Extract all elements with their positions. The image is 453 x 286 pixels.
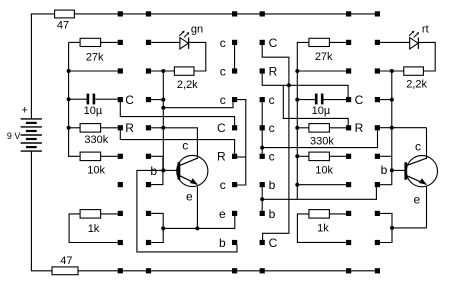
battery B1 9V	[21, 118, 42, 120]
node terminal col5 row5	[346, 125, 351, 130]
resistor R9 330k	[309, 124, 330, 133]
svg-text:rt: rt	[422, 24, 429, 36]
node terminal col5 row9	[346, 240, 351, 245]
wire branch A	[283, 85, 348, 125]
wire right row7 link	[380, 184, 392, 186]
svg-text:27k: 27k	[86, 52, 104, 64]
node terminal col1 row5	[118, 125, 123, 130]
wire right base	[392, 169, 405, 171]
wire right emitter	[426, 187, 428, 228]
node terminal col5 row10	[346, 268, 351, 273]
wire mid-right ccc	[261, 102, 263, 154]
svg-text:c: c	[182, 139, 188, 153]
node terminal col4 row7	[260, 182, 265, 187]
node terminal col1 row9	[118, 240, 123, 245]
node rail R row	[161, 126, 165, 130]
node terminal col5 row1	[346, 11, 351, 16]
svg-text:gn: gn	[191, 24, 203, 36]
LED D2 rt	[380, 41, 410, 43]
node terminal col2 row4	[146, 97, 151, 102]
svg-text:R: R	[125, 121, 134, 135]
transistor Q1	[177, 155, 208, 186]
svg-text:C: C	[355, 93, 364, 107]
capacitor C2 10µ	[315, 94, 318, 105]
node C path R cross	[287, 83, 291, 87]
wire battery plus to top rail	[31, 14, 54, 119]
svg-text:e: e	[414, 193, 421, 207]
node terminal col6 row9	[375, 240, 380, 245]
resistor R10 10k	[309, 152, 330, 161]
wire base to b terminal	[137, 170, 237, 252]
svg-text:47: 47	[60, 255, 72, 267]
node left rail row4	[67, 97, 71, 101]
wire right vertical rail	[391, 71, 393, 185]
node terminal col6 row5	[375, 125, 380, 130]
node terminal col1 row4	[118, 97, 123, 102]
wire base	[163, 169, 177, 171]
svg-text:1k: 1k	[88, 223, 100, 235]
resistor R3 27k	[69, 41, 81, 43]
node terminal col1 row6	[118, 154, 123, 159]
resistor R7 2,2k	[174, 67, 194, 75]
node terminal col4 row1	[260, 11, 265, 16]
node terminal col3 row10	[232, 268, 237, 273]
wire emitter	[196, 187, 198, 229]
node terminal col1 row8	[118, 211, 123, 216]
node terminal col2 row9	[146, 240, 151, 245]
node terminal col6 row8	[375, 211, 380, 216]
node right rail row3	[295, 69, 299, 73]
node rail C row	[161, 98, 165, 102]
svg-text:R: R	[217, 150, 226, 164]
svg-text:c: c	[220, 36, 226, 50]
resistor R4 330k	[80, 124, 101, 133]
node terminal col2 row10	[146, 268, 151, 273]
node terminal col2 row6	[146, 154, 151, 159]
wire base rows 6-7	[151, 156, 163, 184]
wire right row6 link	[380, 155, 392, 157]
svg-text:c: c	[269, 93, 275, 107]
svg-text:e: e	[219, 207, 226, 221]
transistor Q2	[406, 156, 437, 187]
node terminal col3 row3	[232, 68, 237, 73]
node terminal col4 row6	[260, 154, 265, 159]
svg-text:9 V: 9 V	[7, 131, 21, 141]
node terminal col3 row9	[232, 240, 237, 245]
node left rail row5	[67, 126, 71, 130]
svg-text:10µ: 10µ	[312, 105, 331, 117]
node terminal col2 row8	[146, 211, 151, 216]
resistor R6 1k	[80, 210, 101, 219]
node terminal col3 row6	[232, 154, 237, 159]
node 2,2k right junction	[390, 69, 394, 73]
svg-text:47: 47	[57, 19, 69, 31]
resistor R11 1k	[309, 210, 330, 219]
node right rail row4 link	[390, 98, 394, 102]
svg-text:330k: 330k	[310, 136, 334, 148]
wire C terminal path	[262, 45, 289, 240]
svg-text:2,2k: 2,2k	[406, 79, 427, 91]
wire LED rt to 2,2k	[418, 42, 435, 71]
wire 2,2k right left	[380, 70, 404, 72]
node 2,2k junction	[161, 69, 165, 73]
node terminal col5 row3	[346, 68, 351, 73]
node terminal col6 row4	[375, 97, 380, 102]
node terminal col6 row6	[375, 154, 380, 159]
LED D1 gn	[151, 41, 180, 43]
node terminal col4 row5	[260, 125, 265, 130]
svg-text:C: C	[217, 121, 226, 135]
node right rail row6	[295, 154, 299, 158]
svg-text:330k: 330k	[84, 134, 108, 146]
node terminal col5 row4	[346, 97, 351, 102]
resistor R5 10k	[80, 152, 101, 161]
wire left vertical rail	[162, 71, 164, 170]
node terminal col2 row5	[146, 125, 151, 130]
svg-text:c: c	[220, 64, 226, 78]
svg-text:C: C	[269, 36, 278, 50]
svg-text:c: c	[269, 121, 275, 135]
wire right emitter rows 8-9	[380, 213, 392, 242]
node terminal col1 row3	[118, 68, 123, 73]
svg-text:c: c	[415, 140, 421, 154]
node terminal col3 row5	[232, 125, 237, 130]
node terminal col6 row1	[375, 11, 380, 16]
wire R terminal path	[262, 74, 348, 98]
wire mid-right bb	[261, 187, 263, 211]
wire R long	[120, 130, 234, 154]
node terminal col2 row7	[146, 182, 151, 187]
svg-text:1k: 1k	[317, 222, 329, 234]
wire LED to 2,2k	[189, 42, 206, 71]
node terminal col3 row1	[232, 11, 237, 16]
svg-text:c: c	[220, 178, 226, 192]
svg-text:10k: 10k	[315, 165, 333, 177]
svg-text:C: C	[125, 93, 134, 107]
svg-text:2,2k: 2,2k	[177, 79, 198, 91]
node terminal col3 row7	[232, 182, 237, 187]
resistor R2 47 bottom	[52, 267, 78, 275]
node terminal col1 row1	[118, 11, 123, 16]
node terminal col6 row2	[375, 40, 380, 45]
node terminal col6 row3	[375, 68, 380, 73]
node terminal col6 row7	[375, 182, 380, 187]
node terminal col4 row3	[260, 68, 265, 73]
node terminal col5 row2	[346, 40, 351, 45]
node terminal col1 row2	[118, 40, 123, 45]
node right rail row5	[295, 126, 299, 130]
svg-text:b: b	[269, 207, 276, 221]
node terminal col5 row7	[346, 182, 351, 187]
wire left rail	[69, 42, 81, 156]
node right rail row4	[295, 98, 299, 102]
node terminal col5 row8	[346, 211, 351, 216]
node terminal col3 row4	[232, 97, 237, 102]
svg-text:C: C	[269, 236, 278, 250]
wire mid-left c pair	[234, 45, 236, 69]
node bb branch	[260, 197, 264, 201]
resistor R8 27k	[309, 38, 330, 46]
capacitor C1 10µ	[87, 94, 90, 105]
wire 2,2k left	[151, 70, 174, 72]
svg-text:27k: 27k	[315, 51, 333, 63]
svg-text:b: b	[219, 236, 226, 250]
node terminal col2 row2	[146, 40, 151, 45]
node terminal col2 row3	[146, 68, 151, 73]
svg-text:R: R	[355, 121, 364, 135]
wire right rail	[297, 42, 309, 199]
resistor R1 47 top	[55, 10, 75, 18]
wire C long	[120, 102, 234, 125]
node terminal col2 row1	[146, 11, 151, 16]
svg-text:10µ: 10µ	[84, 105, 103, 117]
wire collector link	[163, 128, 197, 159]
wire bottom rail	[78, 270, 377, 272]
node terminal col1 row7	[118, 182, 123, 187]
wire right collector link	[380, 127, 427, 129]
node terminal col5 row6	[346, 154, 351, 159]
node terminal col4 row8	[260, 211, 265, 216]
wire U link c-R-c	[237, 100, 246, 185]
node ccc branch	[260, 146, 264, 150]
node right rail row7	[295, 183, 299, 187]
wire emitter rows 8-9	[151, 213, 163, 242]
svg-text:+: +	[21, 104, 27, 116]
node left rail row3	[67, 69, 71, 73]
svg-text:b: b	[381, 163, 388, 177]
node terminal col4 row4	[260, 97, 265, 102]
wire top rail	[74, 13, 377, 15]
svg-text:c: c	[269, 150, 275, 164]
svg-text:b: b	[150, 164, 157, 178]
wire row4 link	[161, 106, 165, 110]
node terminal col3 row8	[232, 211, 237, 216]
node terminal col4 row2	[260, 40, 265, 45]
svg-text:R: R	[269, 64, 278, 78]
node terminal col4 row9	[260, 240, 265, 245]
node terminal col3 row2	[232, 40, 237, 45]
node terminal col1 row10	[118, 268, 123, 273]
node terminal col6 row10	[375, 268, 380, 273]
node terminal col4 row10	[260, 268, 265, 273]
svg-text:e: e	[186, 189, 193, 203]
resistor R12 2,2k	[404, 67, 424, 75]
svg-text:c: c	[220, 93, 226, 107]
wire battery minus to bottom rail	[31, 151, 52, 271]
svg-text:b: b	[269, 178, 276, 192]
svg-text:10k: 10k	[87, 165, 105, 177]
